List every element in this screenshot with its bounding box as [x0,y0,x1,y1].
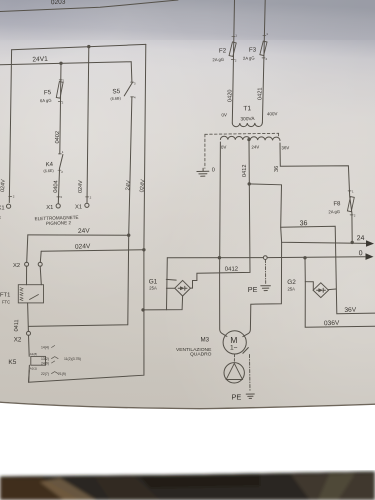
svg-text:024V: 024V [78,180,84,193]
svg-text:13(2): 13(2) [41,357,49,361]
svg-text:0402: 0402 [55,131,61,144]
svg-text:E: E [0,215,1,220]
svg-text:K5: K5 [8,359,16,366]
svg-text:25A: 25A [288,287,296,292]
svg-text:2A gG: 2A gG [212,57,224,62]
svg-text:0412: 0412 [242,165,248,177]
svg-text:36: 36 [274,166,280,172]
svg-text:25A: 25A [149,286,157,291]
svg-text:2A gG: 2A gG [328,209,340,214]
svg-text:21(9): 21(9) [58,372,66,376]
svg-text:PE: PE [248,285,258,294]
svg-text:G1: G1 [149,278,158,285]
svg-text:A1(8): A1(8) [30,352,37,356]
svg-text:36: 36 [300,220,308,227]
svg-text:024V: 024V [139,179,146,193]
svg-text:T1: T1 [243,105,251,112]
svg-text:0V: 0V [221,112,227,117]
svg-text:024V: 024V [0,179,7,192]
svg-text:F5: F5 [44,89,52,96]
svg-text:24V1: 24V1 [32,56,48,64]
svg-text:24(9): 24(9) [41,361,49,365]
svg-text:024V: 024V [75,243,91,251]
svg-text:FTC: FTC [2,300,10,305]
svg-text:24V: 24V [251,144,259,149]
svg-text:PIGNONE 2: PIGNONE 2 [46,220,72,226]
svg-text:A2(1): A2(1) [30,367,37,371]
svg-text:FT1: FT1 [0,293,10,299]
svg-text:X1: X1 [75,204,82,210]
svg-text:0V: 0V [221,145,227,150]
svg-text:X2: X2 [14,336,22,343]
svg-text:400V: 400V [267,111,278,116]
svg-text:(6.6E): (6.6E) [43,169,54,174]
svg-text:0203: 0203 [51,0,66,6]
svg-text:300VA: 300VA [240,116,255,123]
svg-text:0420: 0420 [228,90,234,102]
svg-text:24: 24 [357,235,365,242]
svg-text:36V: 36V [344,307,357,314]
svg-text:22(7): 22(7) [41,372,49,376]
svg-text:X1: X1 [0,206,5,212]
svg-text:14(4): 14(4) [41,346,49,350]
svg-text:QUADRO: QUADRO [190,352,212,358]
svg-text:2A gG: 2A gG [243,55,255,60]
svg-text:F2: F2 [219,47,227,54]
svg-text:0412: 0412 [225,267,239,273]
svg-text:24V: 24V [78,228,91,235]
svg-text:F3: F3 [249,47,257,54]
svg-text:X2: X2 [13,263,20,269]
svg-text:S5: S5 [112,88,121,95]
svg-text:0: 0 [212,168,215,174]
svg-text:K4: K4 [46,162,54,168]
svg-text:36V: 36V [281,145,289,150]
svg-text:F8: F8 [333,201,341,207]
svg-text:X1: X1 [46,205,53,211]
svg-text:036V: 036V [324,320,340,328]
svg-text:6A gG: 6A gG [40,98,52,104]
svg-text:11(2)(3.7B): 11(2)(3.7B) [64,357,81,361]
svg-text:0404: 0404 [53,180,59,193]
svg-text:(6.6B): (6.6B) [110,96,121,101]
svg-text:24V: 24V [125,180,132,191]
svg-text:0: 0 [359,250,363,257]
svg-text:PE: PE [232,392,242,401]
svg-text:M3: M3 [201,336,210,343]
svg-text:G2: G2 [287,279,296,286]
svg-text:0421: 0421 [258,88,264,100]
svg-text:0411: 0411 [14,319,20,331]
svg-text:1~: 1~ [230,344,238,351]
